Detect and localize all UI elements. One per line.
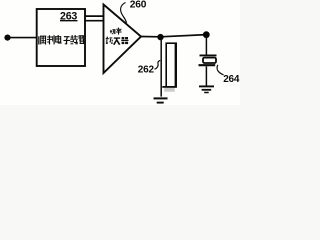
svg-text:264: 264 xyxy=(223,74,240,85)
svg-text:260: 260 xyxy=(130,0,147,11)
svg-text:262: 262 xyxy=(138,64,155,75)
